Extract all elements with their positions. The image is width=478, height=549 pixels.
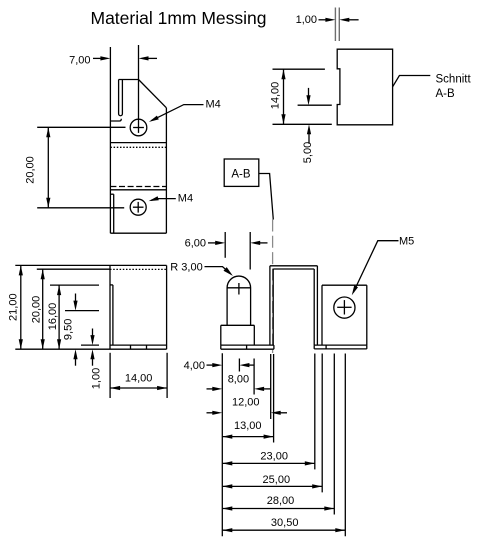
svg-text:14,00: 14,00 <box>125 372 153 384</box>
svg-text:1,00: 1,00 <box>91 368 103 389</box>
svg-text:1,00: 1,00 <box>296 14 317 26</box>
svg-text:5,00: 5,00 <box>302 142 314 163</box>
svg-text:R 3,00: R 3,00 <box>170 262 202 274</box>
svg-text:4,00: 4,00 <box>184 360 205 372</box>
svg-text:M4: M4 <box>206 99 221 111</box>
svg-text:28,00: 28,00 <box>267 495 295 507</box>
svg-text:23,00: 23,00 <box>260 451 288 463</box>
svg-text:30,50: 30,50 <box>271 517 299 529</box>
svg-text:7,00: 7,00 <box>69 54 90 66</box>
svg-text:14,00: 14,00 <box>269 82 281 110</box>
svg-text:16,00: 16,00 <box>47 303 59 331</box>
svg-text:Schnitt: Schnitt <box>436 73 472 85</box>
svg-text:M5: M5 <box>399 236 414 248</box>
svg-text:A-B: A-B <box>436 88 456 100</box>
svg-text:6,00: 6,00 <box>185 238 206 250</box>
svg-text:9,50: 9,50 <box>63 319 75 340</box>
svg-text:25,00: 25,00 <box>263 474 291 486</box>
svg-text:20,00: 20,00 <box>24 156 36 184</box>
svg-text:M4: M4 <box>178 193 193 205</box>
svg-text:13,00: 13,00 <box>234 420 262 432</box>
svg-text:8,00: 8,00 <box>228 374 249 386</box>
svg-text:Material 1mm Messing: Material 1mm Messing <box>91 8 267 28</box>
svg-text:12,00: 12,00 <box>232 397 260 409</box>
svg-text:20,00: 20,00 <box>30 296 42 324</box>
svg-text:21,00: 21,00 <box>7 293 19 321</box>
svg-text:A-B: A-B <box>231 169 251 181</box>
